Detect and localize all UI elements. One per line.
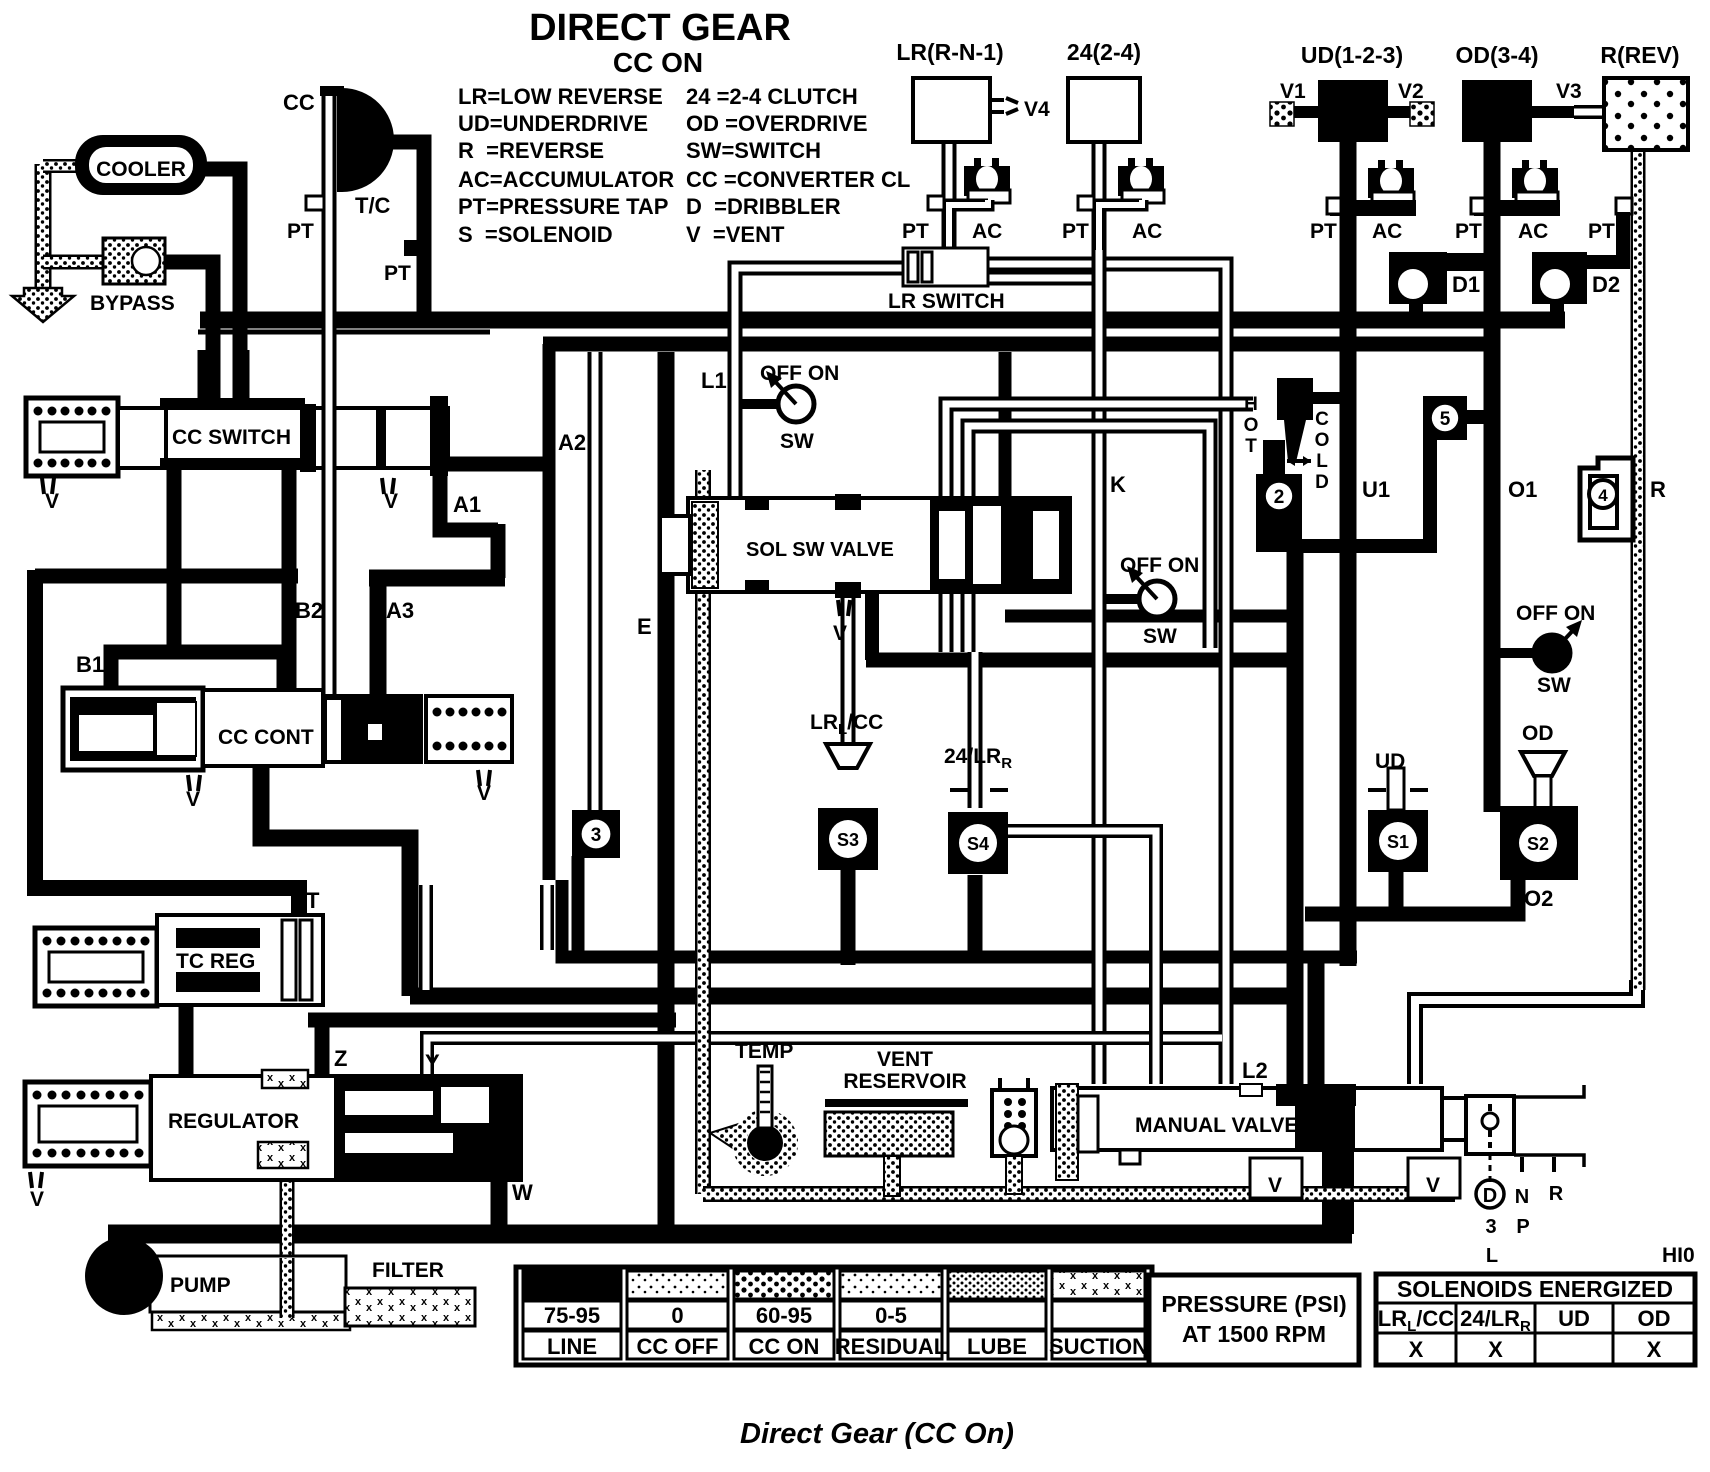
- line S4 right branch: [1005, 831, 1156, 1084]
- svg-text:SW: SW: [1143, 625, 1177, 648]
- svg-text:TC REG: TC REG: [176, 950, 255, 973]
- svg-text:0: 0: [671, 1303, 683, 1328]
- svg-text:C: C: [1315, 409, 1329, 430]
- filter: [345, 1288, 475, 1326]
- svg-text:V: V: [833, 622, 847, 645]
- svg-text:Z: Z: [334, 1046, 347, 1071]
- wire 3-block drop: [572, 856, 585, 957]
- svg-text:UD=UNDERDRIVE: UD=UNDERDRIVE: [458, 111, 648, 136]
- thermal valve hot-cold: [1277, 378, 1313, 420]
- line LR switch to K inner: [985, 271, 1099, 286]
- svg-text:COOLER: COOLER: [96, 158, 186, 181]
- wire A1 down: [491, 524, 506, 578]
- line S3 stem: [841, 592, 856, 742]
- wire manual valve riser to H6: [1322, 1150, 1354, 1234]
- svg-text:S2: S2: [1527, 834, 1549, 854]
- wire V_g long vertical: [658, 352, 675, 1232]
- pressure tap PT reverse: [1616, 198, 1632, 214]
- wire UD clutch feed: [1340, 140, 1357, 966]
- wire CC CONT bottom drop: [261, 760, 410, 996]
- svg-text:MANUAL VALVE: MANUAL VALVE: [1135, 1114, 1298, 1137]
- svg-text:SOLENOIDS ENERGIZED: SOLENOIDS ENERGIZED: [1397, 1276, 1673, 1302]
- svg-text:PRESSURE (PSI): PRESSURE (PSI): [1161, 1291, 1346, 1317]
- arrow hot-cold: [1287, 459, 1311, 463]
- node 3 block: [572, 810, 620, 858]
- svg-text:O1: O1: [1508, 477, 1537, 502]
- wire A2 vertical: [543, 344, 556, 880]
- svg-text:Y: Y: [425, 1050, 440, 1075]
- wire H6 pump main: [108, 1225, 1352, 1244]
- svg-text:UD: UD: [1558, 1306, 1590, 1331]
- valve CC CONT: [63, 688, 203, 770]
- svg-text:O2: O2: [1524, 886, 1553, 911]
- line regulator drain through sump: [280, 1258, 295, 1318]
- wire A1 step 2: [440, 458, 498, 530]
- wire thermal block feed: [1287, 548, 1304, 1084]
- wire OD clutch feed: [1484, 140, 1501, 812]
- wire flag stub: [1305, 392, 1348, 404]
- accumulator OD: [1512, 168, 1558, 198]
- svg-text:0-5: 0-5: [875, 1303, 907, 1328]
- svg-text:D1: D1: [1452, 272, 1480, 297]
- solenoid S2: [1500, 806, 1578, 880]
- svg-text:LRL/CC: LRL/CC: [1378, 1306, 1455, 1335]
- svg-text:OFF ON: OFF ON: [1516, 602, 1595, 625]
- svg-text:X: X: [1488, 1337, 1503, 1362]
- vent V CC switch left: [42, 478, 54, 494]
- valve REGULATOR: [25, 1082, 151, 1166]
- wire cooler feed: [204, 169, 240, 409]
- svg-text:24 =2-4 CLUTCH: 24 =2-4 CLUTCH: [686, 84, 858, 109]
- vent V manual 1: [1250, 1158, 1302, 1198]
- svg-text:CC OFF: CC OFF: [637, 1334, 719, 1359]
- pressure tap PT right: [404, 240, 418, 256]
- wire A2 loop bottom riser: [562, 880, 1357, 957]
- svg-text:PT: PT: [1455, 220, 1482, 243]
- svg-text:TEMP: TEMP: [735, 1040, 793, 1063]
- funnel S3: [826, 744, 870, 768]
- svg-text:S4: S4: [967, 834, 989, 854]
- svg-text:PT=PRESSURE TAP: PT=PRESSURE TAP: [458, 194, 668, 219]
- svg-text:P: P: [1516, 1216, 1529, 1238]
- line E stippled: [695, 470, 711, 1194]
- wire H5 TC line: [308, 1013, 676, 1028]
- wire TC REG drop: [179, 1003, 194, 1078]
- vent V4: [988, 98, 1018, 114]
- pump: [85, 1237, 163, 1315]
- svg-text:REGULATOR: REGULATOR: [168, 1110, 299, 1133]
- line LR switch to L2 outer: [985, 264, 1226, 1084]
- manual valve right extension: [1442, 1098, 1506, 1140]
- wire S3 drop: [841, 868, 856, 965]
- svg-text:R: R: [1549, 1183, 1564, 1205]
- wire B1 branch: [174, 652, 284, 695]
- line regulator drain stippled: [280, 1160, 295, 1316]
- wire left loop V_e: [35, 570, 299, 920]
- svg-text:3: 3: [591, 825, 602, 846]
- selector gate: [1489, 1154, 1492, 1182]
- line A-line double: [588, 352, 603, 812]
- wire HD Z-line: [322, 1020, 676, 1075]
- svg-text:LINE: LINE: [547, 1334, 597, 1359]
- pressure psi box: [1149, 1275, 1359, 1365]
- svg-text:PT: PT: [1310, 220, 1337, 243]
- svg-text:V: V: [477, 782, 491, 805]
- svg-text:PT: PT: [384, 262, 411, 285]
- svg-text:UD(1-2-3): UD(1-2-3): [1301, 42, 1403, 68]
- wire left bar: [35, 569, 298, 584]
- line LR clutch drop: [942, 142, 957, 250]
- solenoid S1 stem: [1368, 788, 1428, 792]
- selector positions: [1476, 1180, 1504, 1208]
- vent V CC CONT right: [478, 770, 490, 786]
- svg-text:3: 3: [1485, 1216, 1496, 1238]
- svg-text:D: D: [1483, 1185, 1497, 1207]
- funnel S2: [1521, 752, 1565, 776]
- valve CC CONT spring box: [426, 696, 512, 762]
- wire S4 drop: [968, 875, 983, 957]
- svg-text:SUCTION: SUCTION: [1049, 1334, 1148, 1359]
- valve CC SWITCH: [26, 398, 118, 476]
- node 5 block: [1423, 396, 1467, 440]
- svg-text:24(2-4): 24(2-4): [1067, 39, 1141, 65]
- svg-text:SW=SWITCH: SW=SWITCH: [686, 138, 821, 163]
- svg-text:CC ON: CC ON: [749, 1334, 820, 1359]
- svg-text:2: 2: [1274, 487, 1285, 508]
- accumulator UD: [1368, 168, 1414, 198]
- vent V CC CONT left: [188, 775, 200, 791]
- svg-text:SW: SW: [1537, 674, 1571, 697]
- svg-text:T: T: [306, 888, 320, 913]
- wire main line H1: [200, 312, 1565, 329]
- svg-text:L: L: [1316, 451, 1328, 472]
- wire CC switch top port 1: [198, 350, 213, 412]
- wire A3 bar: [369, 570, 505, 587]
- line sol valve loop outer: [946, 404, 1253, 652]
- line manual valve channel stippled: [703, 1160, 1447, 1194]
- solenoid S3: [818, 808, 878, 870]
- wire O2 line: [1305, 870, 1396, 914]
- svg-text:A3: A3: [386, 598, 414, 623]
- line CC through CC switch: [322, 400, 337, 475]
- wire sol valve bottom arm: [865, 592, 879, 660]
- svg-text:LR SWITCH: LR SWITCH: [888, 290, 1005, 313]
- wire BV2: [1308, 957, 1325, 1084]
- svg-text:L2: L2: [1242, 1058, 1268, 1083]
- svg-text:AC=ACCUMULATOR: AC=ACCUMULATOR: [458, 167, 674, 192]
- selector: [1466, 1096, 1514, 1154]
- svg-text:S3: S3: [837, 830, 859, 850]
- svg-text:R: R: [1650, 477, 1666, 502]
- svg-text:V: V: [1268, 1174, 1282, 1197]
- bypass valve: [103, 238, 165, 284]
- svg-text:CC: CC: [283, 90, 315, 115]
- svg-text:R =REVERSE: R =REVERSE: [458, 138, 604, 163]
- svg-text:AC: AC: [1372, 220, 1402, 243]
- wire O2 right: [1396, 876, 1518, 914]
- svg-text:B2: B2: [295, 598, 323, 623]
- svg-text:LR=LOW REVERSE: LR=LOW REVERSE: [458, 84, 663, 109]
- svg-text:LR(R-N-1): LR(R-N-1): [896, 39, 1003, 65]
- svg-text:PT: PT: [1062, 220, 1089, 243]
- wire valve out to thermal: [1005, 610, 1295, 623]
- line S4 stem: [968, 652, 983, 808]
- svg-text:V: V: [1426, 1174, 1440, 1197]
- line sol valve loop inner: [968, 426, 1210, 652]
- suction crosshatch from pump: [152, 1310, 350, 1330]
- line cooler return stippled: [35, 164, 52, 290]
- svg-text:RESIDUAL: RESIDUAL: [835, 1334, 947, 1359]
- svg-text:OD: OD: [1522, 722, 1554, 745]
- svg-text:N: N: [1515, 1186, 1529, 1208]
- svg-text:T/C: T/C: [355, 193, 391, 218]
- svg-text:CC ON: CC ON: [613, 47, 703, 78]
- svg-text:BYPASS: BYPASS: [90, 292, 175, 315]
- solenoid S1: [1368, 810, 1428, 872]
- svg-text:D: D: [1315, 472, 1329, 493]
- line Y double: [427, 1038, 1222, 1078]
- svg-text:LUBE: LUBE: [967, 1334, 1027, 1359]
- wire B2-A3 L: [282, 462, 297, 695]
- svg-text:V =VENT: V =VENT: [686, 222, 785, 247]
- CC line top cap: [320, 86, 344, 96]
- svg-text:AC: AC: [1132, 220, 1162, 243]
- svg-text:X: X: [1409, 1337, 1424, 1362]
- svg-text:H: H: [1244, 394, 1258, 415]
- svg-text:D =DRIBBLER: D =DRIBBLER: [686, 194, 841, 219]
- svg-text:AC: AC: [1518, 220, 1548, 243]
- solenoids energized table: [1376, 1274, 1695, 1365]
- svg-text:75-95: 75-95: [544, 1303, 600, 1328]
- svg-text:PT: PT: [902, 220, 929, 243]
- accumulator 24: [1118, 166, 1164, 196]
- svg-text:HI0: HI0: [1662, 1244, 1695, 1267]
- wire H3b under sol valve: [866, 653, 1292, 668]
- svg-text:V: V: [30, 1188, 44, 1211]
- wire H1 lower rail: [198, 330, 490, 335]
- svg-text:PT: PT: [1588, 220, 1615, 243]
- svg-text:VENT: VENT: [877, 1048, 933, 1071]
- wire T/C right leg: [385, 142, 424, 320]
- svg-text:PUMP: PUMP: [170, 1274, 231, 1297]
- svg-text:CC =CONVERTER CL: CC =CONVERTER CL: [686, 167, 910, 192]
- dribbler D2: [1532, 252, 1587, 304]
- svg-text:A1: A1: [453, 492, 481, 517]
- svg-text:RESERVOIR: RESERVOIR: [843, 1070, 966, 1093]
- svg-text:X: X: [1647, 1337, 1662, 1362]
- wire B1 drop from CC switch: [111, 462, 174, 700]
- wire bypass to junction: [160, 262, 213, 412]
- svg-text:AC: AC: [972, 220, 1002, 243]
- svg-text:V4: V4: [1024, 98, 1050, 121]
- svg-text:T: T: [1245, 436, 1257, 457]
- torque converter T/C: [337, 88, 394, 192]
- node 4 bracket: [1580, 458, 1633, 540]
- wire sol valve right feed: [999, 352, 1012, 592]
- cooler: [75, 135, 207, 195]
- svg-text:K: K: [1110, 472, 1126, 497]
- line R reverse stippled: [1631, 150, 1646, 990]
- line LR switch left to L1: [735, 268, 905, 500]
- wire 5 to OD line: [1466, 410, 1492, 424]
- svg-text:R(REV): R(REV): [1600, 42, 1679, 68]
- svg-text:5: 5: [1440, 409, 1451, 430]
- line CC vertical from T/C: [322, 92, 337, 695]
- svg-text:60-95: 60-95: [756, 1303, 812, 1328]
- line 24 clutch K line: [1092, 142, 1107, 1084]
- dribbler D1: [1389, 252, 1447, 304]
- vent V manual 2: [1408, 1158, 1460, 1198]
- line loop channel left: [419, 885, 433, 990]
- pressure tap PT left: [306, 196, 324, 210]
- suction arrow: [12, 288, 74, 322]
- wire CC switch top port 2: [235, 350, 250, 412]
- vent V CC switch right: [382, 478, 394, 494]
- accumulator LR: [964, 166, 1010, 196]
- svg-text:V: V: [384, 490, 398, 513]
- node 2 block: [1256, 474, 1302, 552]
- svg-text:S1: S1: [1387, 832, 1409, 852]
- wire HC long: [410, 988, 1292, 1005]
- svg-text:O: O: [1315, 430, 1330, 451]
- svg-text:W: W: [512, 1180, 533, 1205]
- svg-text:OD(3-4): OD(3-4): [1455, 42, 1538, 68]
- wire D2 stem: [1550, 300, 1564, 318]
- svg-text:V: V: [45, 490, 59, 513]
- vent V sol valve: [838, 600, 850, 616]
- wire A3 down: [370, 578, 387, 695]
- LR switch: [903, 248, 988, 286]
- svg-text:V2: V2: [1398, 80, 1424, 103]
- line cooler to return stipple: [43, 159, 80, 173]
- svg-text:FILTER: FILTER: [372, 1259, 444, 1282]
- svg-text:4: 4: [1598, 486, 1608, 505]
- svg-text:V1: V1: [1280, 80, 1306, 103]
- svg-text:U1: U1: [1362, 477, 1390, 502]
- vent stack: [992, 1090, 1036, 1156]
- svg-text:B1: B1: [76, 652, 104, 677]
- svg-text:AT 1500 RPM: AT 1500 RPM: [1182, 1321, 1326, 1347]
- svg-text:DIRECT GEAR: DIRECT GEAR: [529, 7, 791, 49]
- svg-text:O: O: [1244, 415, 1259, 436]
- svg-text:A2: A2: [558, 430, 586, 455]
- svg-text:D2: D2: [1592, 272, 1620, 297]
- valve MANUAL VALVE: [1052, 1088, 1442, 1150]
- svg-text:L1: L1: [701, 368, 727, 393]
- svg-text:SOL SW VALVE: SOL SW VALVE: [746, 539, 894, 561]
- line bypass stipple: [43, 255, 104, 270]
- valve SOL SW VALVE: [688, 498, 1070, 592]
- svg-text:OD: OD: [1638, 1306, 1671, 1331]
- svg-text:V: V: [186, 788, 200, 811]
- solenoid S4 stem: [950, 788, 1008, 792]
- wire D1 stem: [1409, 300, 1423, 318]
- pump sump outline: [150, 1256, 346, 1312]
- svg-text:S =SOLENOID: S =SOLENOID: [458, 222, 613, 247]
- svg-text:LRL/CC: LRL/CC: [810, 711, 883, 738]
- wire pump riser: [109, 1234, 126, 1248]
- line loop channel right: [540, 885, 554, 950]
- svg-text:SW: SW: [780, 430, 814, 453]
- svg-text:OD =OVERDRIVE: OD =OVERDRIVE: [686, 111, 868, 136]
- wire main line H2: [543, 337, 1492, 352]
- vent V regulator: [30, 1172, 42, 1188]
- svg-text:CC SWITCH: CC SWITCH: [172, 426, 291, 449]
- line manual valve to R: [1415, 980, 1637, 1084]
- wire UD branch to 5: [1295, 438, 1430, 546]
- pressure legend table: [516, 1267, 1152, 1365]
- wire regulator W drop: [491, 1175, 508, 1234]
- svg-text:L: L: [1486, 1245, 1498, 1267]
- svg-text:E: E: [637, 614, 652, 639]
- svg-text:V3: V3: [1556, 80, 1582, 103]
- svg-text:CC CONT: CC CONT: [218, 726, 314, 749]
- wire S1 stem: [1389, 870, 1404, 914]
- svg-text:PT: PT: [287, 220, 314, 243]
- wire CC switch A1 step: [440, 457, 549, 472]
- svg-text:Direct Gear (CC On): Direct Gear (CC On): [740, 1418, 1014, 1450]
- solenoid S4: [948, 812, 1008, 874]
- valve TC REG: [35, 928, 157, 1006]
